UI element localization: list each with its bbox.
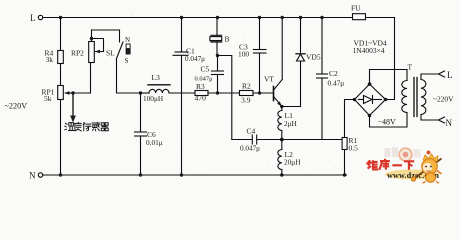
- svg-text:FU: FU: [351, 4, 361, 13]
- svg-text:−48V: −48V: [378, 118, 397, 127]
- resistor R3 470: [195, 82, 209, 103]
- node junction VD5 top rail: [299, 16, 302, 19]
- node junction L1/L2/C4: [280, 138, 284, 142]
- node junction RP1 wiper: [71, 91, 74, 94]
- wire top rail right corner down: [386, 18, 395, 100]
- wire secondary bottom to N terminal: [421, 115, 453, 129]
- svg-text:2μH: 2μH: [284, 119, 298, 128]
- svg-text:0.047μ: 0.047μ: [185, 55, 205, 63]
- svg-text:R3: R3: [196, 82, 205, 91]
- svg-text:S: S: [125, 57, 129, 65]
- svg-text:0.047μ: 0.047μ: [240, 145, 260, 153]
- wire VT collector riser: [281, 18, 283, 80]
- resistor R1 0.5: [342, 136, 358, 153]
- wire L3 to R3: [169, 92, 195, 94]
- node junction C1 bottom: [180, 173, 183, 176]
- node junction RP2 top strap: [90, 37, 93, 40]
- svg-text:N: N: [446, 118, 453, 128]
- svg-text:3.9: 3.9: [241, 96, 251, 105]
- node junction C6 bottom: [139, 173, 142, 176]
- scan noise: [4, 4, 442, 182]
- node junction C5 bottom rail: [216, 91, 219, 94]
- potentiometer RP2: [71, 42, 94, 63]
- node junction emitter: [280, 105, 283, 108]
- inductor L1 2uH: [278, 107, 298, 140]
- fuse FU: [351, 4, 366, 20]
- svg-text:100μH: 100μH: [143, 94, 164, 103]
- svg-text:~220V: ~220V: [5, 102, 28, 111]
- capacitor C6 0.01u: [135, 93, 163, 175]
- inductor L3 100uH: [143, 73, 170, 103]
- svg-text:L3: L3: [152, 73, 161, 82]
- svg-text:R2: R2: [242, 82, 251, 91]
- yellow glow band: [385, 170, 439, 180]
- svg-text:SL: SL: [106, 49, 115, 58]
- wire top rail: [43, 17, 395, 19]
- bridge rectifier VD1-VD4: [353, 82, 388, 117]
- node junction L2 bottom rail: [280, 173, 283, 176]
- wire bottom rail: [43, 174, 347, 176]
- wire secondary top to L terminal: [421, 70, 453, 80]
- svg-text:5k: 5k: [44, 94, 52, 103]
- wire R4 branch upper: [60, 18, 62, 51]
- diode VD5: [296, 18, 321, 62]
- node junction C3 base rail: [258, 91, 261, 94]
- transformer T: [402, 63, 426, 117]
- potentiometer RP1 5k (humidity sensor): [42, 86, 74, 104]
- svg-text:L: L: [30, 13, 36, 23]
- svg-text:0.047μ: 0.047μ: [195, 76, 214, 83]
- svg-text:L: L: [447, 70, 453, 80]
- label VD1~VD4 1N4003x4: [353, 39, 387, 56]
- node junction C2 top rail: [320, 16, 323, 19]
- svg-text:VT: VT: [264, 75, 274, 84]
- svg-text:20μH: 20μH: [284, 158, 301, 167]
- capacitor C3 100: [238, 18, 266, 94]
- node junction R1 bottom rail: [343, 173, 346, 176]
- svg-text:470: 470: [195, 94, 207, 103]
- svg-text:N: N: [125, 36, 130, 44]
- wire RP1 wiper to RP2 bottom: [73, 63, 91, 94]
- resistor R4 3k: [45, 49, 64, 65]
- wire bridge top corner to transformer primary top: [370, 70, 408, 85]
- node junction B top rail: [216, 16, 219, 19]
- transistor VT: [264, 75, 282, 107]
- node junction C3 top rail: [258, 16, 261, 19]
- svg-text:~220V: ~220V: [433, 95, 454, 104]
- wire emitter to VD5: [282, 61, 301, 107]
- wire SL bottom to oscillator rail: [117, 59, 141, 94]
- capacitor C1 0.047u: [173, 18, 205, 176]
- wire bridge left corner to R1: [345, 100, 355, 138]
- watermark logo dzsc: [368, 148, 442, 184]
- svg-text:N: N: [29, 171, 36, 181]
- ghost logo circle and faint chars: [385, 148, 421, 161]
- svg-text:T: T: [408, 63, 413, 72]
- svg-text:100: 100: [238, 50, 249, 59]
- mascot: [411, 151, 441, 183]
- resistor R2 3.9: [240, 82, 254, 105]
- inductor L2 20uH: [278, 140, 301, 176]
- wire B node to C4 branch: [218, 56, 232, 140]
- switch SL reed: [106, 36, 130, 65]
- svg-text:1N4003×4: 1N4003×4: [353, 46, 385, 55]
- node N input terminal: [29, 171, 43, 181]
- label arrow for humidity sensor: [70, 95, 76, 123]
- svg-text:C2: C2: [329, 69, 338, 78]
- svg-text:B: B: [225, 35, 230, 44]
- node junction B/C5: [216, 54, 219, 57]
- wire feedback node to R1: [282, 139, 345, 141]
- wire R4 to RP1: [60, 64, 62, 86]
- node junction R4 branch bottom: [59, 173, 62, 176]
- wire R2 to VT base: [253, 92, 273, 94]
- capacitor C5 0.047u: [195, 56, 224, 94]
- node junction top of R4 branch: [59, 16, 62, 19]
- wire RP1 bottom to N rail: [60, 100, 62, 176]
- red brand text wei ku yi xia (drawn strokes): [368, 159, 415, 170]
- svg-text:0.01μ: 0.01μ: [146, 138, 163, 147]
- node junction collector top rail: [281, 16, 284, 19]
- svg-text:RP2: RP2: [71, 49, 84, 58]
- wire R3 to R2: [208, 92, 240, 94]
- wire RP2 wiper strap: [92, 39, 104, 54]
- svg-text:3k: 3k: [46, 55, 54, 64]
- svg-text:C5: C5: [201, 65, 210, 74]
- svg-text:0.47μ: 0.47μ: [328, 79, 345, 88]
- node junction C6 top: [139, 91, 142, 94]
- wire bridge bottom corner to transformer primary bottom: [370, 113, 408, 128]
- wire R1 bottom to N rail: [344, 150, 346, 176]
- crystal B: [210, 18, 230, 56]
- label 湿度传感器 humidity sensor text (drawn strokes): [65, 123, 108, 131]
- node L input terminal: [30, 13, 43, 23]
- wire rail to L3: [141, 92, 150, 94]
- wire RP2 top lead: [91, 30, 93, 42]
- capacitor C2 0.47u: [317, 18, 345, 140]
- svg-text:VD5: VD5: [306, 53, 321, 62]
- svg-text:C4: C4: [247, 127, 256, 136]
- wire RP2 to switch SL: [92, 30, 120, 42]
- capacitor C4 0.047u: [232, 127, 282, 153]
- node junction C1 top rail: [180, 16, 183, 19]
- svg-text:0.5: 0.5: [349, 144, 359, 153]
